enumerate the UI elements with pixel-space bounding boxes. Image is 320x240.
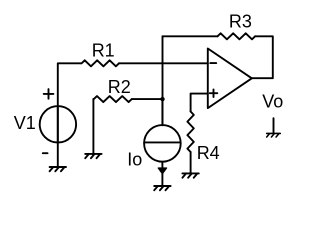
svg-text:Vo: Vo <box>262 91 283 111</box>
svg-text:R3: R3 <box>229 12 252 32</box>
ground (R2) <box>85 154 101 158</box>
V1 minus sign <box>43 152 48 154</box>
V1 plus sign <box>44 89 54 99</box>
svg-text:V1: V1 <box>14 113 36 133</box>
wire node to Io <box>161 99 163 125</box>
resistor R3 <box>218 33 256 39</box>
ground (V1) <box>50 167 66 171</box>
Vo reference ground stem <box>273 118 275 133</box>
current source Io <box>144 125 181 162</box>
node junction dot <box>160 97 164 101</box>
voltage source V1 <box>40 106 76 142</box>
ground (R4) <box>182 173 198 177</box>
svg-text:R1: R1 <box>92 40 115 60</box>
op-amp U1 <box>208 49 252 109</box>
svg-text:Io: Io <box>127 150 142 170</box>
wire arrow to ground <box>161 173 163 186</box>
wire Io bottom with arrow <box>161 162 163 169</box>
resistor R2 <box>93 96 131 102</box>
wire R2 ground stem <box>92 99 94 154</box>
Io arrowhead <box>158 168 166 174</box>
op-amp minus marker <box>210 62 216 64</box>
ground (Vo) <box>267 133 281 137</box>
resistor R4 <box>187 112 193 153</box>
wire summing node vertical <box>162 36 164 125</box>
wire V1 bottom to ground <box>57 106 59 167</box>
wire R2 to node <box>132 98 163 100</box>
wire feedback top left <box>163 35 218 37</box>
wire R4 to ground <box>190 152 192 173</box>
resistor R1 <box>81 60 119 66</box>
wire feedback right down to output <box>252 36 273 78</box>
Io source bar <box>144 141 180 143</box>
wire R1 to op-amp minus input <box>119 62 208 64</box>
wire V1 top to R1 <box>58 63 81 142</box>
svg-text:R4: R4 <box>197 143 220 163</box>
wire op-amp plus input to R4 <box>191 94 208 112</box>
svg-text:R2: R2 <box>108 77 131 97</box>
ground (Io) <box>154 186 170 190</box>
op-amp plus marker <box>210 90 218 98</box>
